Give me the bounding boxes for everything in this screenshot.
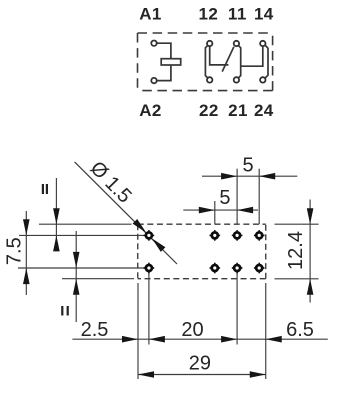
svg-text:12: 12 [199, 4, 219, 23]
hole leader line dia 1.5 [75, 162, 177, 264]
dimension 5 second line [183, 209, 258, 211]
svg-text:Ø 1.5: Ø 1.5 [86, 157, 136, 207]
hole pin 12 [210, 230, 221, 241]
wire link pins 12-22 [205, 46, 207, 78]
contact terminal 21 [234, 77, 239, 82]
hole A2 pin [144, 263, 155, 274]
contact terminal 22 [207, 77, 212, 82]
NC fixed contact 12 [210, 46, 229, 65]
svg-text:6.5: 6.5 [286, 319, 314, 341]
extension line hole col3 up [258, 169, 260, 225]
extension line rect bottom right [275, 278, 319, 280]
svg-text:22: 22 [199, 101, 219, 120]
svg-text:24: 24 [254, 101, 274, 120]
svg-text:12.4: 12.4 [285, 231, 307, 270]
svg-text:7.5: 7.5 [3, 237, 25, 265]
dimension 12.4 line [309, 200, 311, 303]
extension line top hole row [19, 234, 145, 236]
svg-text:11: 11 [228, 4, 247, 23]
svg-text:5: 5 [242, 155, 253, 177]
svg-text:A1: A1 [139, 4, 162, 23]
extension line rect bottom left [62, 278, 134, 280]
extension line rect top right [275, 223, 319, 225]
extension line hole col1 up [214, 201, 216, 224]
hole A1 pin [144, 230, 155, 241]
hole pin 22 [210, 263, 221, 274]
svg-text:5: 5 [219, 187, 230, 209]
extension line rect right down [265, 283, 267, 379]
extension line hole col2 down [236, 273, 238, 345]
contact terminal 14 [260, 41, 265, 46]
equal-spacing dimension bottom [75, 231, 77, 322]
relay outline dashed box [138, 33, 273, 91]
contact terminal 11 [234, 41, 239, 46]
dimension 29 line [138, 374, 266, 376]
svg-text:A2: A2 [139, 101, 162, 120]
wire A2 to coil [157, 65, 171, 81]
hole pin 11 [232, 230, 243, 241]
dimension chain line 2.5 20 6.5 [72, 338, 327, 340]
hole pin 14 [254, 230, 265, 241]
coil terminal A1 [151, 41, 156, 46]
wire link pins 11-21 [238, 46, 240, 78]
movable contact arm 11 [222, 47, 234, 72]
wire link pins 14-24 [265, 45, 268, 78]
PCB footprint outline dashed [138, 224, 266, 279]
equality mark bottom [61, 306, 63, 316]
hole pin 24 [254, 263, 265, 274]
coil winding U1 [161, 59, 181, 65]
svg-text:2.5: 2.5 [81, 319, 109, 341]
svg-text:14: 14 [254, 4, 274, 23]
dimension 7.5 line [25, 211, 27, 295]
equality mark top [42, 184, 44, 194]
contact terminal 24 [260, 77, 265, 82]
svg-text:21: 21 [228, 101, 248, 120]
hole pin 21 [232, 263, 243, 274]
extension line rect left down [137, 283, 139, 379]
dimension 5 top line [202, 175, 297, 177]
extension line bottom hole row [18, 267, 145, 269]
extension line rect top left [39, 223, 132, 225]
wire A1 to coil [157, 43, 171, 59]
equal-spacing dimension top [55, 178, 57, 247]
coil terminal A2 [151, 78, 156, 83]
svg-text:29: 29 [189, 353, 211, 375]
contact terminal 12 [207, 41, 212, 46]
extension line hole col2 up [236, 169, 238, 225]
extension line coil hole col down [148, 273, 150, 345]
svg-text:20: 20 [181, 319, 203, 341]
NO fixed contact 14 [241, 46, 263, 66]
